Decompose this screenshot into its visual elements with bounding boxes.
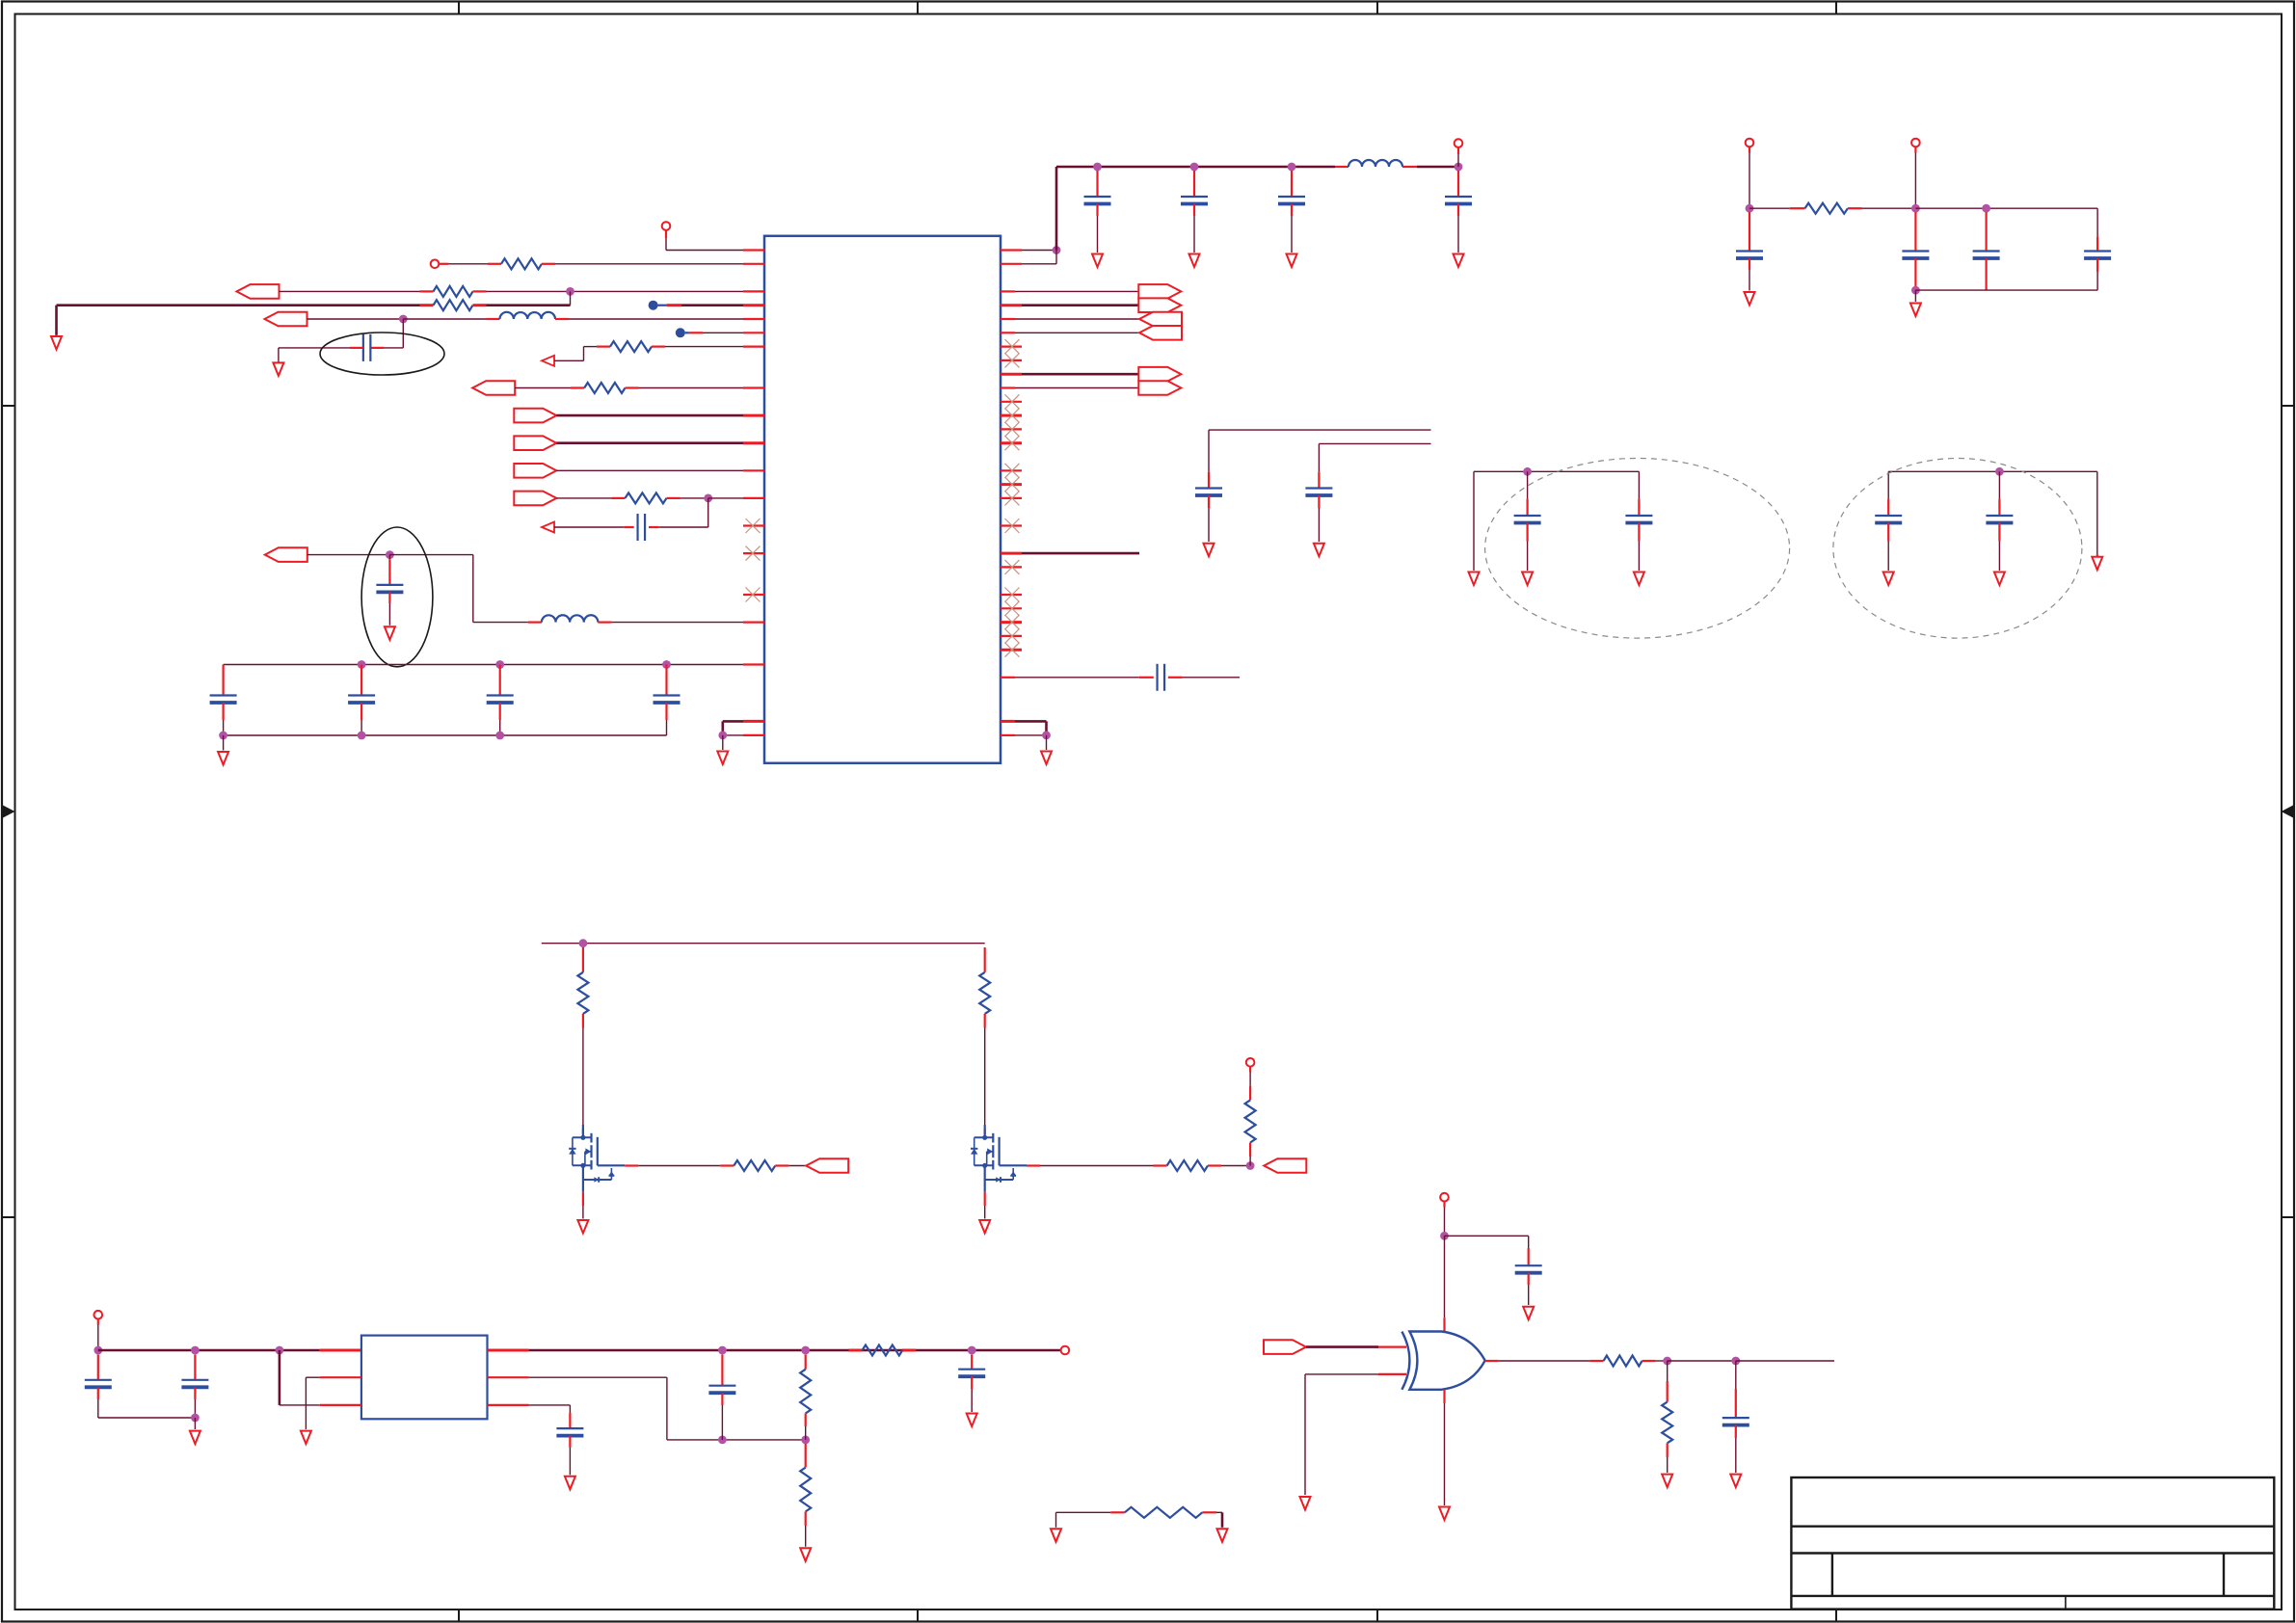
resistor R3 (420, 300, 487, 310)
node J11 (718, 732, 727, 740)
resistor R9 (734, 1160, 806, 1171)
ground (301, 1431, 311, 1445)
terminal P5 (1911, 139, 1920, 209)
no-connect pin (1001, 615, 1022, 629)
net flag arrow AR1 (1138, 284, 1181, 299)
resistor R12 (1245, 1086, 1256, 1157)
terminal P7 (1440, 1193, 1449, 1236)
VDD rail (1056, 163, 1348, 172)
XOR gate U3 (1402, 1332, 1484, 1390)
wire B2 to U1 pin 7 (689, 332, 764, 333)
wire R7 to J21 (1862, 207, 1916, 209)
no-connect pin (1001, 601, 1022, 616)
bus tap dot B2 (676, 328, 689, 337)
ground (1522, 572, 1533, 586)
wire shunt left (1056, 1512, 1125, 1528)
ground (1300, 1497, 1311, 1510)
node J27 (1663, 1357, 1671, 1366)
terminal P2 (431, 260, 448, 269)
wire f1 jog (554, 347, 597, 361)
wire shunt right (1216, 1512, 1222, 1528)
wire U1 pin 31 (1001, 677, 1139, 678)
node J17 (1042, 732, 1051, 740)
capacitor C24 (1722, 1361, 1749, 1473)
wire Q2 gate (1027, 1164, 1167, 1166)
transistor Q2 (971, 1125, 1027, 1192)
resistor R2 (280, 286, 487, 297)
no-connect pin (1001, 560, 1022, 574)
capacitor C8 (1084, 171, 1111, 253)
ground (1662, 1475, 1672, 1488)
wire U1 pin 29 (1001, 734, 1047, 736)
ground (717, 752, 728, 765)
capacitor C5 (348, 665, 375, 736)
wire J3 to U1 pin 14 (708, 497, 764, 499)
ground (1469, 572, 1480, 586)
net flag arrow AR5 (1138, 367, 1181, 382)
wire J28 right (1736, 1360, 1834, 1362)
no-connect pin (1001, 436, 1022, 450)
resistor R10 (979, 947, 990, 1028)
wire R3 to J1 (487, 304, 571, 306)
capacitor C9 (1181, 171, 1208, 253)
net flag arrow A8 (265, 547, 307, 562)
ground (1314, 544, 1324, 557)
wire J26 to C23 (1445, 1236, 1529, 1248)
node J26 (1440, 1232, 1449, 1240)
wire U1 pin 18 (723, 734, 764, 736)
wire U1 pin 45 (1001, 290, 1138, 292)
wire G2 right leg (2096, 471, 2098, 556)
wire XOR output (1485, 1360, 1604, 1362)
ground (1730, 1475, 1741, 1488)
wire XOR gnd pin (1443, 1390, 1445, 1505)
node J12 (1053, 246, 1061, 254)
wire riser to VDD rail (1055, 167, 1058, 251)
wire R5 to U1 pin 10 (639, 387, 765, 389)
ground (273, 362, 283, 376)
node J2 (399, 315, 408, 324)
wire bus to ground (223, 735, 225, 751)
ground (1041, 752, 1052, 765)
wire G1 left leg (1473, 471, 1475, 571)
ground (979, 1220, 990, 1234)
inductor L3 (1348, 160, 1462, 171)
node J32 (191, 1414, 200, 1423)
wire A2 to J2 (307, 318, 404, 320)
resistor R4 (597, 341, 665, 352)
ground (1883, 572, 1894, 586)
resistor R16 (800, 1355, 811, 1440)
wire R2 to U1 pin 4 (487, 290, 765, 292)
wire R12 to J25 (1249, 1157, 1251, 1166)
no-connect pin (1001, 353, 1022, 367)
node J29 (93, 1346, 102, 1355)
wire U1 pin 30 corner (1001, 721, 1047, 735)
net flag arrow A5 (514, 436, 556, 450)
no-connect pin (1001, 643, 1022, 657)
wire R10 to Q2 (984, 1028, 986, 1135)
ground (218, 752, 228, 765)
wire J2 down (402, 319, 404, 348)
wire B1 to U1 pin 5 (667, 304, 764, 306)
resistor R8 (577, 947, 588, 1028)
wire J11 to ground (722, 735, 724, 750)
capacitor C19 (1736, 212, 1763, 291)
capacitor C18 (1986, 471, 2013, 571)
bias rail (542, 939, 985, 947)
wire cap tower 1 (1209, 430, 1431, 472)
capacitor C16 (1625, 471, 1652, 571)
ground (1287, 254, 1297, 268)
left center zone arrow (3, 806, 15, 818)
IC U1 (764, 236, 1001, 763)
wire C1 to ground (278, 348, 280, 363)
capacitor C1 (279, 334, 403, 361)
capacitor C2 (554, 514, 708, 541)
wire Q1 gate (625, 1164, 734, 1166)
ground (1745, 292, 1755, 306)
no-connect pin (743, 546, 764, 561)
capacitor C17 (1875, 471, 1902, 571)
wire U1 pin 44 (1001, 304, 1138, 306)
net flag arrow A10 (1264, 1158, 1306, 1173)
node J20 (1746, 204, 1754, 213)
no-connect pin (1001, 394, 1022, 409)
wire U1 pin 48 to riser (1001, 249, 1056, 251)
bottom bus G2 (1915, 289, 2097, 291)
no-connect pin (1001, 588, 1022, 602)
resistor R17 (800, 1444, 811, 1547)
wire Q1 source to ground (582, 1192, 584, 1219)
resistor R1 (448, 258, 555, 269)
net flag f2 (542, 522, 554, 533)
feedback bus (667, 1436, 810, 1445)
capacitor C28 (958, 1355, 985, 1413)
capacitor C15 (1514, 471, 1541, 571)
net flag arrow A9 (806, 1158, 848, 1173)
wire U1 pin 47 to riser (1001, 251, 1056, 264)
ground (1523, 1307, 1534, 1320)
wire R1 to U1 pin 2 (555, 263, 764, 265)
no-connect pin (743, 519, 764, 533)
wire to ground left (55, 306, 58, 336)
no-connect pin (1001, 491, 1022, 505)
node J3 (681, 494, 713, 503)
ground (1217, 1529, 1228, 1542)
wire J32 to ground (194, 1418, 196, 1429)
wire J1 jog (570, 291, 572, 305)
no-connect pin (743, 588, 764, 602)
wire A4 to U1 pin 11 (556, 414, 764, 417)
net flag arrow A3 (472, 381, 515, 395)
wire cap tower 2 (1319, 443, 1430, 471)
node J1 (566, 287, 574, 296)
regulator U2 (361, 1336, 488, 1420)
terminal P8 (94, 1311, 103, 1350)
wire J31 to U2 pin 3 (280, 1350, 361, 1405)
wire R8 to Q1 (582, 1028, 584, 1135)
ground (1910, 304, 1921, 317)
terminal P4 (1746, 139, 1754, 209)
resistor R7 (1749, 203, 1862, 214)
net flag arrow A11 (1264, 1340, 1306, 1354)
inductor L1 (403, 312, 569, 319)
wire J27 to J28 (1668, 1360, 1736, 1362)
wire U1 pin 42 (1001, 332, 1139, 333)
wire Q2 source to ground (984, 1192, 986, 1219)
wire J17 to ground (1046, 735, 1048, 750)
wire U2 pin 2 (306, 1377, 361, 1429)
ground (577, 1220, 588, 1234)
wire L2 to U1 pin 15 (611, 622, 764, 624)
capacitor C7 (654, 665, 681, 736)
terminal P6 (1246, 1058, 1255, 1086)
wire U1 pin 34 stub (1001, 552, 1139, 555)
ground (1439, 1507, 1450, 1521)
dashed ellipse E3 (1485, 459, 1790, 639)
wire U1 pin 17 corner (723, 721, 764, 735)
output rail (488, 1346, 1061, 1355)
terminal P3 (1455, 139, 1463, 167)
wire group G2 top (1888, 467, 2097, 476)
title block (1791, 1477, 2274, 1610)
capacitor C3 (376, 555, 403, 625)
no-connect pin (1001, 422, 1022, 437)
dashed ellipse E4 (1833, 459, 2082, 639)
wire J4 right and down (389, 555, 528, 623)
inductor L2 (528, 615, 612, 622)
net flag arrow A1 (237, 284, 280, 299)
wire A7 to R6 (556, 497, 625, 499)
ground (385, 626, 395, 640)
no-connect pin (1001, 464, 1022, 478)
ground (190, 1431, 200, 1445)
highlight ellipse E2 (361, 527, 433, 667)
wire A6 to U1 pin 13 (556, 469, 764, 471)
decoupling bus bottom (219, 732, 666, 740)
node J23 (1911, 286, 1920, 295)
capacitor C22 (2084, 208, 2111, 290)
ground (1189, 254, 1200, 268)
net flag arrow AR2 (1138, 298, 1181, 312)
capacitor C4 (210, 665, 237, 736)
wire rail right (1915, 204, 2097, 213)
resistor R18 (1125, 1507, 1216, 1518)
capacitor C27 (708, 1355, 735, 1440)
capacitor C20 (1902, 212, 1929, 290)
ground (1994, 572, 2005, 586)
wire A5 to U1 pin 12 (556, 441, 764, 444)
decoupling bus top (224, 660, 764, 669)
net flag arrow A7 (514, 492, 556, 506)
capacitor C14 (1305, 472, 1332, 542)
wire P1 to U1 pin 1 (666, 250, 764, 252)
node J21 (1911, 204, 1920, 213)
wire A8 to J4 (307, 554, 390, 556)
wire A11 to XOR input A (1306, 1345, 1406, 1348)
net flag f1 (542, 356, 554, 366)
capacitor C6 (487, 665, 514, 736)
wire J23 to ground (1914, 290, 1916, 302)
resistor R13 (1604, 1356, 1668, 1367)
wire U2 pin 5 (488, 1405, 571, 1428)
wire XOR input B (1305, 1374, 1406, 1495)
capacitor C26 (181, 1355, 208, 1419)
terminal P9 (1061, 1346, 1070, 1355)
ground (1454, 254, 1464, 268)
capacitor C13 (1195, 472, 1222, 542)
no-connect pin (1001, 628, 1022, 643)
capacitor C12 (1139, 664, 1240, 691)
net flag arrow AR4 (1139, 326, 1182, 340)
net flag arrow A2 (265, 312, 307, 327)
wire U1 pin 43 (1001, 318, 1139, 320)
wire U2 pin 6 (488, 1377, 667, 1440)
resistor R14 (1662, 1361, 1672, 1473)
terminal P1 (662, 222, 671, 250)
resistor R6 (626, 492, 681, 503)
ground (2092, 557, 2102, 571)
capacitor C11 (1445, 171, 1472, 253)
node J28 (1731, 1357, 1740, 1366)
bus tap dot B1 (649, 301, 667, 310)
highlight ellipse E1 (320, 333, 444, 375)
ground (1092, 254, 1103, 268)
resistor R11 (1167, 1160, 1251, 1171)
net flag arrow A6 (514, 464, 556, 478)
transistor Q1 (569, 1125, 625, 1192)
capacitor C10 (1278, 171, 1305, 253)
net flag arrow AR6 (1138, 381, 1181, 395)
resistor R15 (849, 1345, 917, 1356)
ground (1204, 544, 1215, 557)
node J4 (386, 550, 394, 559)
no-connect pin (1001, 519, 1022, 533)
resistor R5 (584, 383, 638, 393)
wire R4 to U1 pin 8 (665, 346, 764, 348)
ground (1051, 1529, 1061, 1542)
net flag arrow A4 (514, 409, 556, 423)
node J25 (1246, 1161, 1255, 1170)
no-connect pin (1001, 477, 1022, 492)
wire U1 pin 40 (1001, 373, 1138, 376)
wire J3 down (707, 498, 709, 527)
capacitor C25 (85, 1355, 196, 1419)
wire L1 to U1 pin 6 (569, 318, 764, 320)
wire U1 pin 39 (1001, 386, 1138, 388)
ground (1634, 572, 1644, 586)
no-connect pin (1001, 339, 1022, 354)
no-connect pin (1001, 409, 1022, 423)
capacitor C23 (1515, 1248, 1542, 1305)
ground (51, 336, 62, 350)
wire A3 to R5 (515, 387, 584, 389)
capacitor C29 (556, 1428, 583, 1475)
input rail (98, 1346, 361, 1355)
ground (967, 1414, 977, 1427)
wire J26 to XOR power pin (1444, 1236, 1446, 1332)
wire net row 5 from left (57, 304, 420, 306)
ground (565, 1477, 575, 1490)
wire group G1 top (1474, 467, 1639, 476)
capacitor C21 (1973, 212, 2000, 290)
ground (800, 1548, 811, 1561)
net flag arrow AR3 (1139, 312, 1182, 327)
right center zone arrow (2282, 806, 2294, 818)
